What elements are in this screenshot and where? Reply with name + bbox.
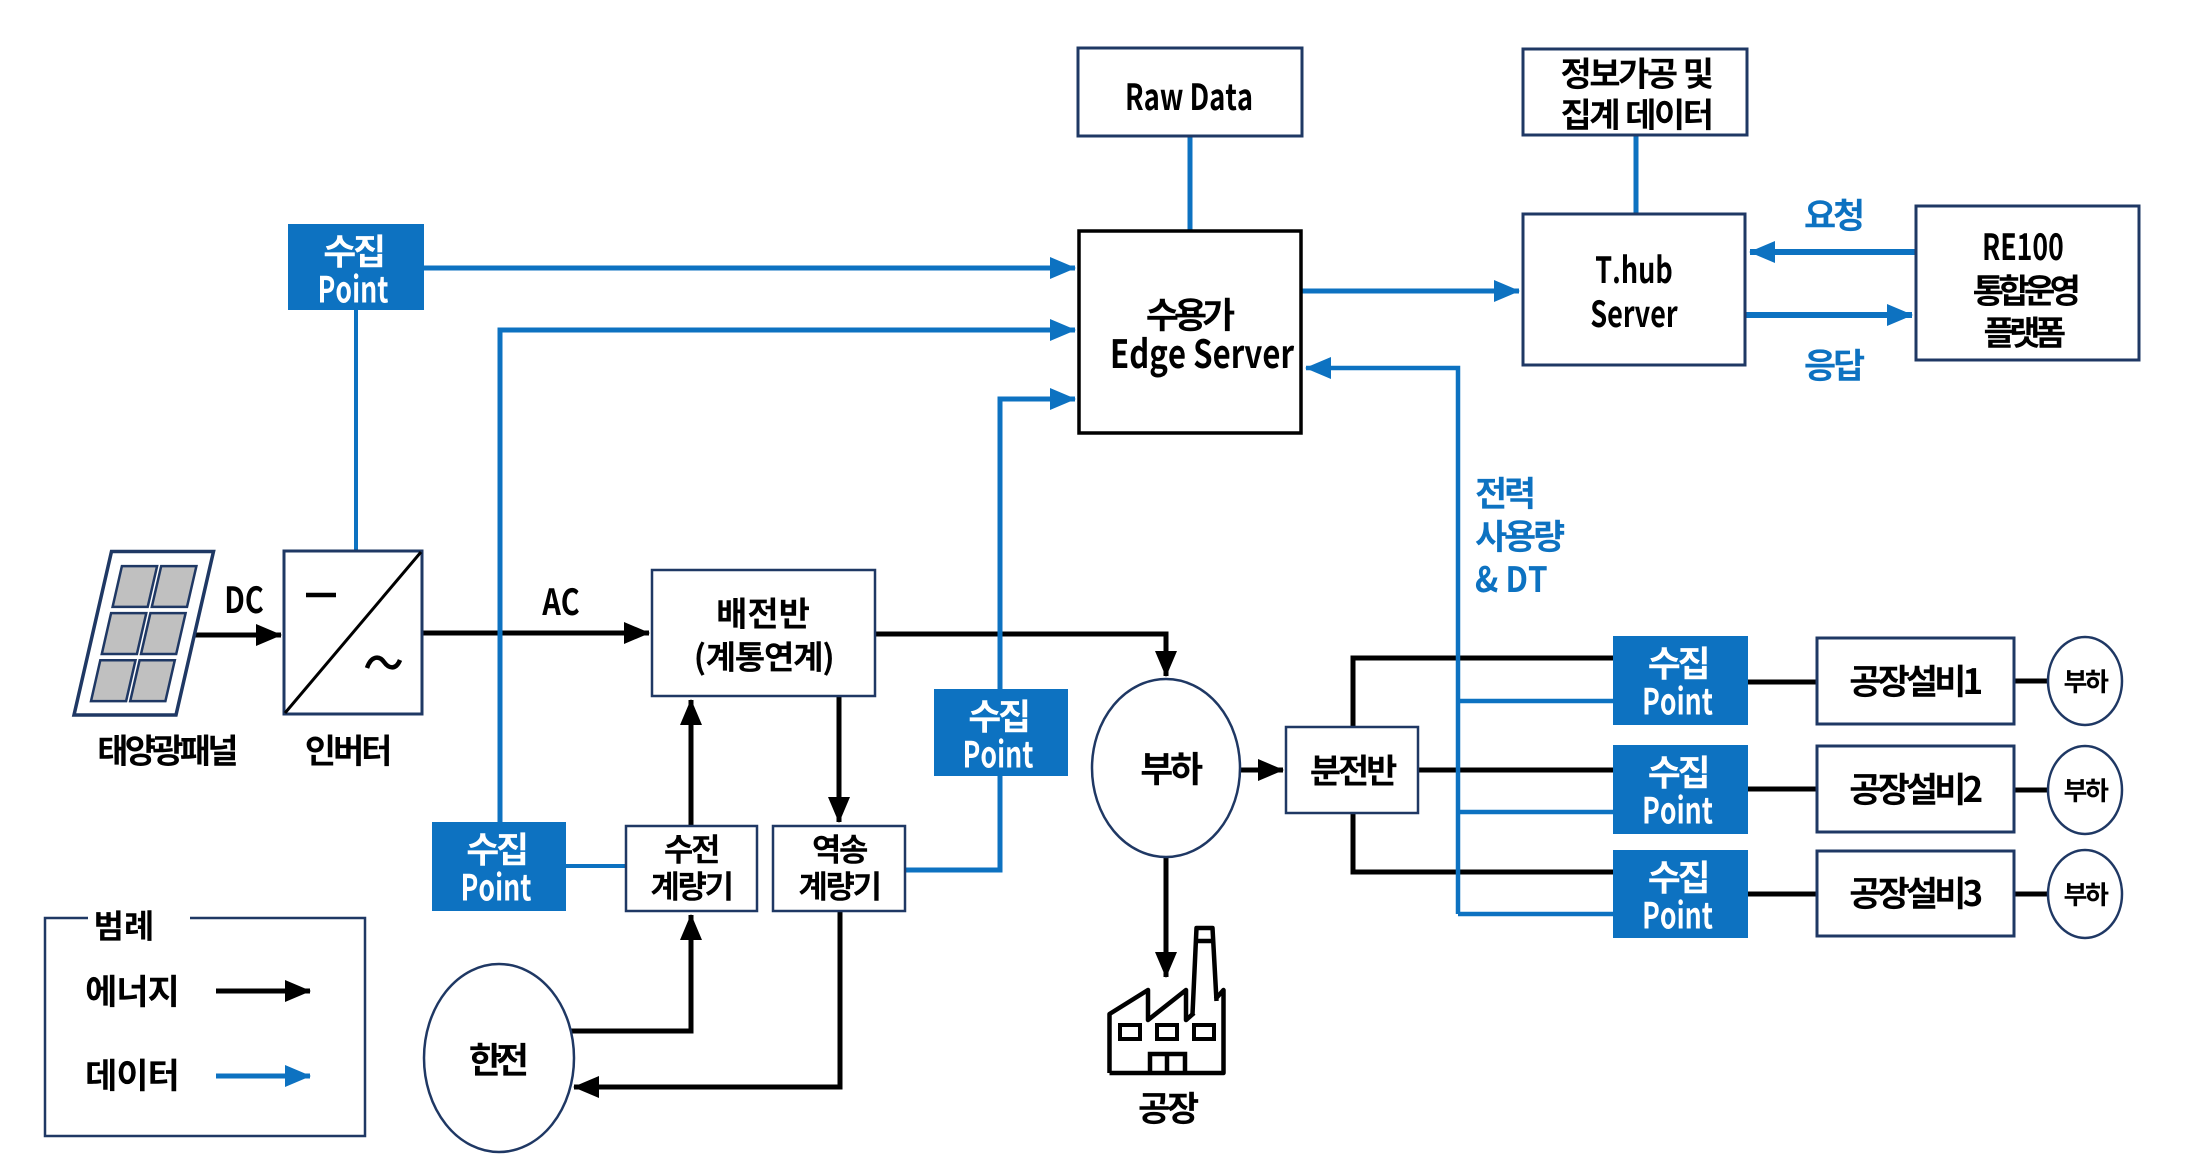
box factory equipment 2 [1817,746,2014,832]
wire collect point 5 to factory equip 2 [1748,787,1817,792]
wire collect point 4 to factory equip 1 [1748,680,1817,685]
ellipse load 3 [2048,850,2122,938]
box receive meter [626,826,757,911]
wire KEPCO to receive-meter [571,915,691,1031]
label inverter [307,735,389,767]
wire distribution panel to collect point 5 [1418,768,1613,773]
label edge line1 [1147,298,1234,331]
label switchboard line2 [697,641,832,675]
label collect point 5 line1 [1649,755,1707,788]
data branch to collect point 6 [1458,912,1613,917]
box collect point 5 [1613,745,1748,834]
box collect point 6 [1613,850,1748,938]
label edge line2 [1113,337,1294,378]
ellipse KEPCO [424,964,574,1152]
solar panel frame [74,552,214,716]
label load main [1142,752,1203,785]
label request [1805,199,1861,232]
label collect point 4 line1 [1649,646,1707,679]
wire solar panel to inverter (DC) [193,633,281,638]
data reverse-meter via collect point 3 to edge server [905,399,1075,870]
label DC [227,586,263,614]
label legend data [87,1059,176,1092]
box info processing and aggregated data [1523,49,1747,135]
box distribution panel [1286,727,1418,813]
box switchboard [652,570,875,696]
label switchboard line1 [718,598,809,630]
wire factory equip 2 to load 2 [2014,788,2048,793]
label power usage line1 [1476,477,1532,509]
data request RE100 to T.hub [1750,249,1916,255]
label response [1805,349,1864,381]
label distribution panel [1311,755,1396,786]
box collect point 3 [934,689,1068,776]
data power usage line to edge server [1306,368,1458,914]
label power usage line2 [1476,520,1564,552]
data branch to collect point 5 [1458,810,1613,815]
inverter diagonal [285,552,421,713]
data response T.hub to RE100 [1746,312,1912,318]
label thub line1 [1596,254,1672,283]
label re100 line1 [1985,233,2063,261]
data branch to collect point 4 [1458,699,1613,704]
box collect point 2 [432,822,566,911]
factory door [1150,1054,1185,1071]
ellipse load 2 [2048,746,2122,834]
label legend title [96,910,151,941]
label collect point 1 line1 [325,234,383,267]
label thub line2 [1591,300,1677,328]
wire factory equip 3 to load 3 [2014,892,2048,897]
inverter DC dash [306,593,336,598]
wire inverter to switchboard (AC) [422,631,649,636]
box collect point 1 [288,224,424,310]
label collect point 3 line2 [965,738,1033,768]
label factory [1140,1092,1199,1124]
ellipse load (main) [1092,679,1240,857]
label load 2 [2065,778,2109,802]
label power usage line3 [1476,566,1547,593]
label factory equipment 1 [1851,665,1981,698]
label Raw Data [1128,83,1252,110]
factory window 2 [1157,1025,1177,1039]
data raw data to edge server [1188,136,1193,231]
label info line2 [1562,99,1711,131]
label AC [542,588,579,616]
box Raw Data [1078,48,1302,136]
factory icon building [1110,990,1224,1073]
label load 3 [2065,882,2109,906]
wire switchboard down to reverse-meter [837,696,842,822]
factory icon chimney [1193,928,1217,1014]
box RE100 platform [1916,206,2139,360]
label reverse meter line2 [799,871,878,901]
wire load to distribution panel [1241,768,1283,773]
label re100 line3 [1985,317,2065,348]
box consumer edge server [1079,231,1301,433]
wire distribution panel to collect point 4 [1353,658,1613,727]
box T.hub server [1523,214,1745,365]
wire receive-meter up to switchboard [689,700,694,826]
data collect point 2 to receive-meter [566,864,626,868]
label collect point 2 line2 [463,871,531,901]
label reverse meter line1 [814,834,868,864]
data AC tap to edge server [500,330,1075,822]
label collect point 6 line1 [1649,860,1707,893]
inverter AC tilde [367,658,400,668]
label factory equipment 3 [1851,877,1982,910]
solar panel cells [91,566,196,701]
label collect point 4 line2 [1645,685,1713,715]
label re100 line2 [1974,274,2078,306]
inverter box [284,551,422,714]
label receive meter line1 [665,834,718,864]
legend energy arrow [216,989,310,994]
label collect point 1 line2 [320,273,388,303]
data collect point 1 to edge server [424,266,1075,271]
label collect point 3 line1 [970,699,1027,732]
label legend energy [87,975,176,1008]
wire factory equip 1 to load 1 [2014,679,2048,684]
box factory equipment 3 [1817,851,2014,936]
label collect point 6 line2 [1645,899,1713,929]
label solar panel [100,735,236,767]
data edge server to T.hub server [1301,289,1519,294]
label receive meter line2 [651,871,730,901]
label load 1 [2065,669,2109,693]
factory window 3 [1194,1025,1214,1039]
legend box [45,918,365,1136]
legend data arrow [216,1074,310,1079]
label collect point 2 line1 [468,832,526,865]
data collect point 1 down to inverter [354,310,358,551]
data info box to T.hub server [1634,135,1639,214]
label factory equipment 2 [1851,773,1982,806]
box collect point 4 [1613,636,1748,725]
wire switchboard to load ellipse [875,634,1166,676]
ellipse load 1 [2048,637,2122,725]
wire load down to factory [1164,857,1169,977]
wire reverse-meter to KEPCO [574,911,840,1087]
factory window 1 [1120,1025,1140,1039]
box factory equipment 1 [1817,638,2014,724]
label collect point 5 line2 [1645,794,1713,824]
label KEPCO [470,1043,526,1076]
wire distribution panel to collect point 6 [1353,813,1613,872]
wire collect point 6 to factory equip 3 [1748,892,1817,897]
box reverse meter [773,826,905,911]
label info line1 [1562,58,1712,90]
